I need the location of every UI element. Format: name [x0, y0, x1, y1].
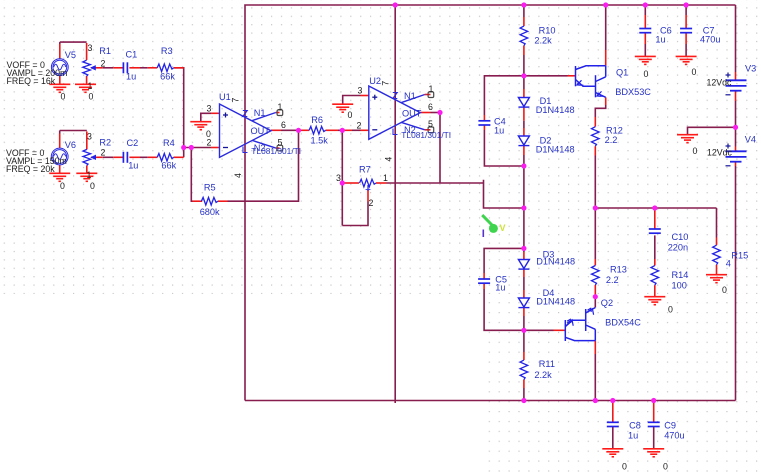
svg-text:0: 0: [348, 110, 353, 120]
svg-text:66k: 66k: [161, 161, 176, 171]
svg-text:100: 100: [672, 281, 687, 291]
svg-text:2: 2: [101, 59, 106, 69]
svg-text:2: 2: [369, 198, 374, 208]
svg-text:1u: 1u: [494, 126, 504, 136]
svg-text:N1: N1: [404, 91, 416, 101]
svg-text:R12: R12: [606, 126, 623, 136]
svg-text:4: 4: [384, 157, 394, 162]
svg-text:1u: 1u: [655, 35, 665, 45]
svg-text:7: 7: [381, 81, 391, 86]
svg-text:FREQ = 16k: FREQ = 16k: [7, 76, 56, 86]
svg-text:1: 1: [88, 81, 93, 91]
svg-text:2: 2: [207, 138, 212, 148]
svg-text:D1N4148: D1N4148: [536, 145, 575, 155]
svg-text:D1N4148: D1N4148: [536, 257, 575, 267]
svg-text:470u: 470u: [664, 431, 684, 441]
svg-text:1.5k: 1.5k: [311, 136, 329, 146]
svg-text:R10: R10: [539, 26, 556, 36]
svg-text:0: 0: [61, 92, 66, 102]
svg-text:R13: R13: [610, 265, 627, 275]
svg-text:5: 5: [428, 119, 433, 129]
svg-text:C10: C10: [672, 232, 689, 242]
svg-text:2.2k: 2.2k: [534, 36, 552, 46]
svg-text:V4: V4: [745, 135, 756, 145]
svg-text:66k: 66k: [160, 72, 175, 82]
svg-text:FREQ = 20k: FREQ = 20k: [6, 164, 55, 174]
svg-text:R2: R2: [99, 138, 111, 148]
svg-text:2.2k: 2.2k: [534, 370, 552, 380]
svg-text:0: 0: [622, 462, 627, 472]
svg-text:C9: C9: [664, 421, 676, 431]
svg-text:R11: R11: [539, 359, 555, 369]
svg-text:4: 4: [233, 173, 243, 178]
svg-text:0: 0: [89, 92, 94, 102]
svg-text:0: 0: [60, 181, 65, 191]
svg-text:6: 6: [281, 120, 286, 130]
svg-text:3: 3: [88, 43, 93, 53]
svg-text:V3: V3: [745, 64, 756, 74]
svg-text:R4: R4: [163, 138, 175, 148]
svg-text:C2: C2: [127, 138, 139, 148]
svg-text:D1N4148: D1N4148: [536, 297, 575, 307]
svg-text:OUT: OUT: [251, 126, 271, 136]
svg-text:4: 4: [726, 259, 731, 269]
svg-text:TL081/301/TI: TL081/301/TI: [401, 130, 451, 140]
svg-text:U2: U2: [369, 76, 381, 86]
svg-text:OUT: OUT: [402, 108, 422, 118]
svg-text:N1: N1: [254, 108, 266, 118]
svg-text:1: 1: [429, 84, 434, 94]
svg-text:0: 0: [90, 181, 95, 191]
svg-text:2.2: 2.2: [605, 135, 618, 145]
svg-text:12Vdc: 12Vdc: [707, 78, 733, 88]
svg-text:R1: R1: [99, 46, 111, 56]
svg-text:Q2: Q2: [601, 298, 613, 308]
svg-text:7: 7: [231, 98, 241, 103]
svg-text:0: 0: [668, 305, 673, 315]
svg-text:Q1: Q1: [616, 68, 628, 78]
svg-text:3: 3: [87, 132, 92, 142]
svg-text:V5: V5: [65, 50, 76, 60]
svg-text:2: 2: [357, 121, 362, 131]
svg-text:C8: C8: [629, 421, 641, 431]
svg-text:680k: 680k: [200, 207, 220, 217]
svg-text:D1N4148: D1N4148: [536, 105, 575, 115]
svg-text:C1: C1: [126, 50, 138, 60]
svg-text:R15: R15: [731, 251, 748, 261]
svg-text:BDX53C: BDX53C: [615, 87, 651, 97]
svg-text:12Vdc: 12Vdc: [707, 148, 733, 158]
svg-text:R5: R5: [204, 183, 216, 193]
svg-text:U1: U1: [219, 92, 231, 102]
svg-text:TL081/301/TI: TL081/301/TI: [251, 146, 301, 156]
svg-text:1u: 1u: [126, 72, 136, 82]
svg-text:0: 0: [644, 69, 649, 79]
svg-text:V6: V6: [65, 140, 76, 150]
svg-text:6: 6: [428, 102, 433, 112]
svg-text:220n: 220n: [668, 243, 688, 253]
svg-text:R7: R7: [359, 165, 371, 175]
svg-text:1: 1: [278, 102, 283, 112]
svg-text:0: 0: [663, 462, 668, 472]
svg-text:3: 3: [336, 173, 341, 183]
svg-text:1u: 1u: [128, 161, 138, 171]
svg-text:470u: 470u: [700, 35, 720, 45]
svg-text:R14: R14: [672, 270, 689, 280]
svg-text:3: 3: [358, 86, 363, 96]
svg-text:0: 0: [722, 285, 727, 295]
svg-text:BDX54C: BDX54C: [605, 318, 641, 328]
svg-text:1u: 1u: [495, 283, 505, 293]
svg-text:1u: 1u: [628, 431, 638, 441]
svg-text:3: 3: [207, 104, 212, 114]
svg-text:R3: R3: [161, 46, 173, 56]
svg-text:R6: R6: [311, 115, 323, 125]
svg-text:2: 2: [101, 148, 106, 158]
svg-text:2.2: 2.2: [606, 275, 619, 285]
svg-text:1: 1: [383, 173, 388, 183]
svg-text:0: 0: [692, 67, 697, 77]
svg-text:1: 1: [87, 170, 92, 180]
svg-text:V: V: [500, 223, 506, 233]
svg-text:0: 0: [693, 146, 698, 156]
